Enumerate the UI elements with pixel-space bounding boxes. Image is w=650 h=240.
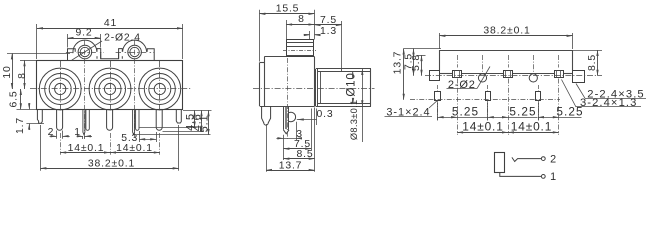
- svg-text:0.3: 0.3: [317, 109, 334, 120]
- svg-text:2: 2: [48, 127, 55, 138]
- svg-text:2: 2: [550, 153, 557, 165]
- svg-text:41: 41: [104, 18, 117, 29]
- svg-text:1.7: 1.7: [15, 117, 26, 134]
- svg-text:1.3: 1.3: [320, 26, 337, 37]
- svg-text:7.5: 7.5: [320, 15, 337, 26]
- svg-text:14±0.1: 14±0.1: [116, 143, 153, 154]
- svg-text:8.5: 8.5: [297, 149, 314, 160]
- svg-text:14±0.1: 14±0.1: [68, 143, 105, 154]
- svg-text:10: 10: [2, 65, 13, 78]
- svg-text:6.5: 6.5: [9, 91, 20, 108]
- svg-text:Ø10: Ø10: [344, 72, 357, 96]
- svg-text:8.5: 8.5: [587, 54, 598, 71]
- svg-text:13.7: 13.7: [279, 160, 303, 171]
- svg-text:5.25: 5.25: [556, 105, 583, 119]
- svg-text:2-Ø2.4: 2-Ø2.4: [104, 33, 141, 44]
- svg-text:8: 8: [298, 14, 305, 25]
- svg-text:1: 1: [550, 171, 557, 183]
- svg-text:8: 8: [17, 72, 28, 79]
- svg-text:2-Ø2: 2-Ø2: [448, 79, 476, 91]
- svg-text:5.8: 5.8: [411, 54, 422, 71]
- svg-text:14±0.1: 14±0.1: [462, 120, 503, 134]
- svg-text:15.5: 15.5: [276, 3, 300, 14]
- svg-text:5.25: 5.25: [452, 105, 479, 119]
- svg-text:5.25: 5.25: [509, 105, 536, 119]
- svg-text:3-2.4×1.3: 3-2.4×1.3: [580, 97, 638, 109]
- svg-text:Ø8.3±0.1: Ø8.3±0.1: [349, 100, 359, 141]
- svg-text:9.2: 9.2: [76, 27, 93, 38]
- svg-text:38.2±0.1: 38.2±0.1: [483, 26, 530, 37]
- svg-text:1: 1: [74, 127, 81, 138]
- svg-text:13.7: 13.7: [392, 51, 403, 75]
- svg-text:38.2±0.1: 38.2±0.1: [88, 159, 135, 170]
- svg-text:14±0.1: 14±0.1: [511, 120, 552, 134]
- svg-text:5.1: 5.1: [199, 114, 211, 132]
